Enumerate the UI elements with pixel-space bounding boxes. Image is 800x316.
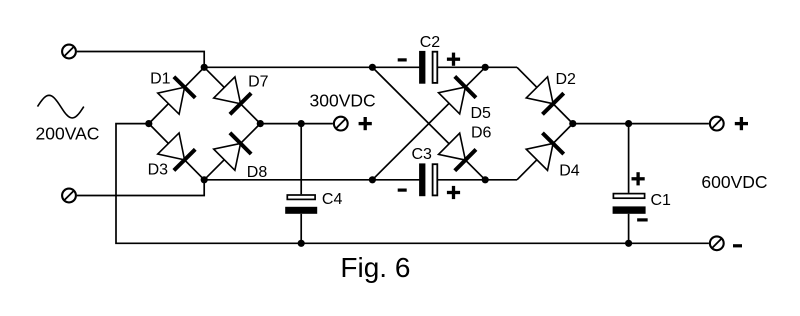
svg-text:600VDC: 600VDC [701, 172, 767, 192]
svg-text:C3: C3 [412, 146, 433, 163]
svg-text:200VAC: 200VAC [36, 124, 100, 144]
svg-text:D5: D5 [471, 105, 492, 122]
svg-text:300VDC: 300VDC [310, 91, 376, 111]
svg-text:D3: D3 [148, 161, 169, 178]
svg-text:C1: C1 [651, 192, 672, 209]
svg-text:Fig. 6: Fig. 6 [340, 252, 410, 283]
svg-text:C4: C4 [322, 191, 343, 208]
svg-text:D8: D8 [247, 164, 268, 181]
svg-text:D4: D4 [559, 163, 580, 180]
svg-text:D7: D7 [248, 74, 269, 91]
svg-text:D2: D2 [556, 71, 577, 88]
svg-text:C2: C2 [420, 34, 441, 51]
svg-text:D1: D1 [150, 71, 171, 88]
svg-text:D6: D6 [471, 125, 492, 142]
